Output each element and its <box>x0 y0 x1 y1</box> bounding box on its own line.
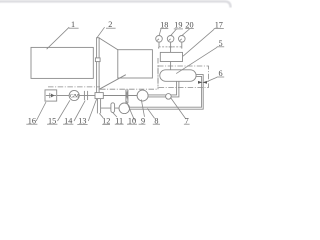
svg-text:17: 17 <box>215 20 223 29</box>
svg-text:8: 8 <box>154 116 158 125</box>
svg-text:18: 18 <box>160 20 168 29</box>
svg-text:13: 13 <box>78 117 86 126</box>
svg-text:5: 5 <box>218 39 222 48</box>
svg-text:20: 20 <box>185 20 193 29</box>
svg-text:15: 15 <box>48 116 56 125</box>
svg-text:7: 7 <box>185 116 189 125</box>
svg-text:11: 11 <box>115 116 123 125</box>
svg-text:G/M: G/M <box>70 93 79 99</box>
svg-text:9: 9 <box>141 116 145 125</box>
svg-text:2: 2 <box>108 20 112 29</box>
svg-text:6: 6 <box>218 69 222 78</box>
svg-text:12: 12 <box>102 117 110 126</box>
svg-text:19: 19 <box>174 21 182 30</box>
svg-text:1: 1 <box>71 20 75 29</box>
svg-text:10: 10 <box>128 116 136 125</box>
svg-text:16: 16 <box>28 116 36 125</box>
svg-text:14: 14 <box>64 116 72 125</box>
